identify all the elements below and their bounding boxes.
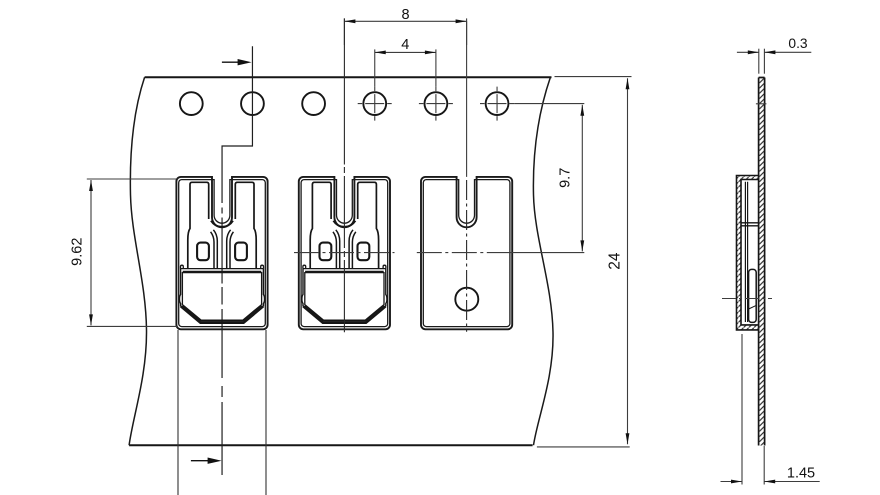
pocket bump section xyxy=(737,176,759,330)
dimension 24 xyxy=(537,77,632,447)
sprocket hole tick side view xyxy=(756,103,767,105)
dimension 9.62 xyxy=(87,179,177,326)
part in pocket P1 xyxy=(179,182,264,323)
feed direction arrow bottom xyxy=(191,458,222,464)
pocket P1 edge extension lines xyxy=(178,330,266,495)
index line through hole H2 xyxy=(222,46,252,203)
svg-text:9.62: 9.62 xyxy=(69,238,85,266)
pocket P1 centerline lower xyxy=(221,208,223,476)
dimension 4 xyxy=(375,49,436,120)
9.7 bottom extension xyxy=(502,252,584,254)
pocket P3 vertical centerline xyxy=(466,21,468,177)
dimension 9.7 xyxy=(581,105,583,252)
right break line xyxy=(533,77,553,445)
body chamfer line side xyxy=(749,305,757,309)
carrier tape top edge xyxy=(145,76,552,78)
carrier tape bottom edge xyxy=(129,444,532,446)
left break line xyxy=(129,77,146,445)
pocket P2 horizontal centerline xyxy=(294,252,395,254)
dimension 0.3 xyxy=(737,49,811,74)
sprocket hole H3 xyxy=(302,92,325,115)
svg-text:8: 8 xyxy=(401,7,409,23)
pocket P1 xyxy=(176,177,267,329)
pocket P3 xyxy=(421,177,512,329)
dimension 8 xyxy=(344,18,466,45)
side view centerline xyxy=(722,298,772,300)
sprocket hole H1 xyxy=(180,92,203,115)
part in pocket P2 xyxy=(302,182,387,323)
svg-text:24: 24 xyxy=(607,252,624,270)
sprocket hole H4 xyxy=(363,92,386,115)
pocket P3 pilot hole xyxy=(455,288,478,311)
feed direction arrow top xyxy=(222,59,252,65)
svg-text:1.45: 1.45 xyxy=(787,465,815,481)
pocket P2 xyxy=(299,177,390,329)
sprocket hole H6 xyxy=(486,92,509,115)
dimension 1.45 xyxy=(721,334,820,485)
svg-text:9.7: 9.7 xyxy=(558,168,574,188)
crosshair H4 xyxy=(358,103,392,105)
pocket P3 horizontal centerline xyxy=(417,252,502,254)
pocket P2 vertical centerline xyxy=(343,18,345,332)
svg-text:0.3: 0.3 xyxy=(788,36,808,51)
part body section xyxy=(749,269,757,322)
crosshair H5 xyxy=(419,103,453,105)
svg-text:4: 4 xyxy=(401,37,409,53)
slot bottom section lines xyxy=(741,223,759,226)
part blade section xyxy=(745,182,747,322)
crosshair H6 and 9.7 extension xyxy=(480,87,584,121)
sprocket hole H5 xyxy=(425,92,448,115)
tape strip section xyxy=(759,78,765,446)
sprocket hole H2 xyxy=(241,92,264,115)
